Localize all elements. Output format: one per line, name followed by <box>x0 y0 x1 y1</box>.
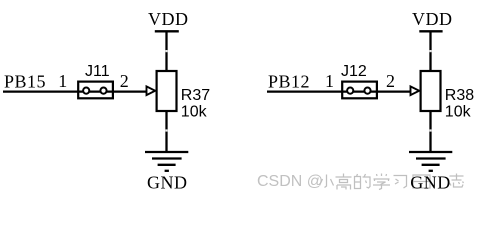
svg-text:VDD: VDD <box>412 9 453 29</box>
resistor R37 body <box>157 71 177 111</box>
wire PB15 to jumper J11 and resistor R37 <box>3 90 147 92</box>
watermark glyph 学 <box>373 174 390 190</box>
watermark glyph 志 <box>450 174 464 188</box>
wire VDD to resistor R38 <box>429 31 431 70</box>
ground symbol (left) <box>145 152 188 171</box>
svg-text:J12: J12 <box>341 63 367 80</box>
resistor R38 body <box>421 71 441 111</box>
artifact dash on left VDD wire <box>165 50 167 52</box>
jumper J12 body <box>342 82 377 99</box>
svg-text:PB12: PB12 <box>268 72 310 92</box>
svg-text:2: 2 <box>120 71 130 91</box>
svg-text:2: 2 <box>386 71 396 91</box>
svg-text:R38: R38 <box>445 87 474 104</box>
wire resistor R38 to ground <box>429 112 431 152</box>
jumper J11 pin 2 circle <box>100 88 106 94</box>
svg-text:GND: GND <box>410 173 451 193</box>
svg-text:CSDN @: CSDN @ <box>257 173 323 190</box>
artifact dash on right GND wire <box>429 129 431 131</box>
artifact dash on left GND wire <box>165 129 167 131</box>
wiper arrow into resistor R38 <box>411 86 420 95</box>
watermark glyph 日 <box>413 175 430 188</box>
watermark glyph 习 <box>394 176 407 189</box>
jumper J11 pin 1 circle <box>83 88 89 94</box>
svg-text:GND: GND <box>147 173 188 193</box>
svg-text:10k: 10k <box>445 103 472 120</box>
wire PB12 to jumper J12 and resistor R38 <box>267 90 411 92</box>
svg-text:VDD: VDD <box>148 9 189 29</box>
watermark glyph 的 <box>355 174 371 189</box>
jumper J11 body <box>78 82 113 99</box>
jumper J12 pin 2 circle <box>364 88 370 94</box>
svg-text:R37: R37 <box>181 87 210 104</box>
svg-text:10k: 10k <box>181 103 208 120</box>
svg-text:1: 1 <box>58 71 68 91</box>
svg-text:1: 1 <box>325 71 335 91</box>
wiper arrow into resistor R37 <box>147 86 156 95</box>
ground symbol (right) <box>409 152 452 171</box>
artifact dash on right VDD wire <box>429 50 431 52</box>
wire VDD to resistor R37 <box>165 31 167 70</box>
power symbol VDD bar (right) <box>419 30 442 32</box>
svg-text:PB15: PB15 <box>4 72 46 92</box>
watermark glyph 高 <box>336 174 352 190</box>
wire resistor R37 to ground <box>165 112 167 152</box>
jumper J12 pin 1 circle <box>347 88 353 94</box>
svg-text:J11: J11 <box>85 63 110 80</box>
power symbol VDD bar (left) <box>155 30 179 32</box>
watermark glyph 小 <box>320 175 334 188</box>
